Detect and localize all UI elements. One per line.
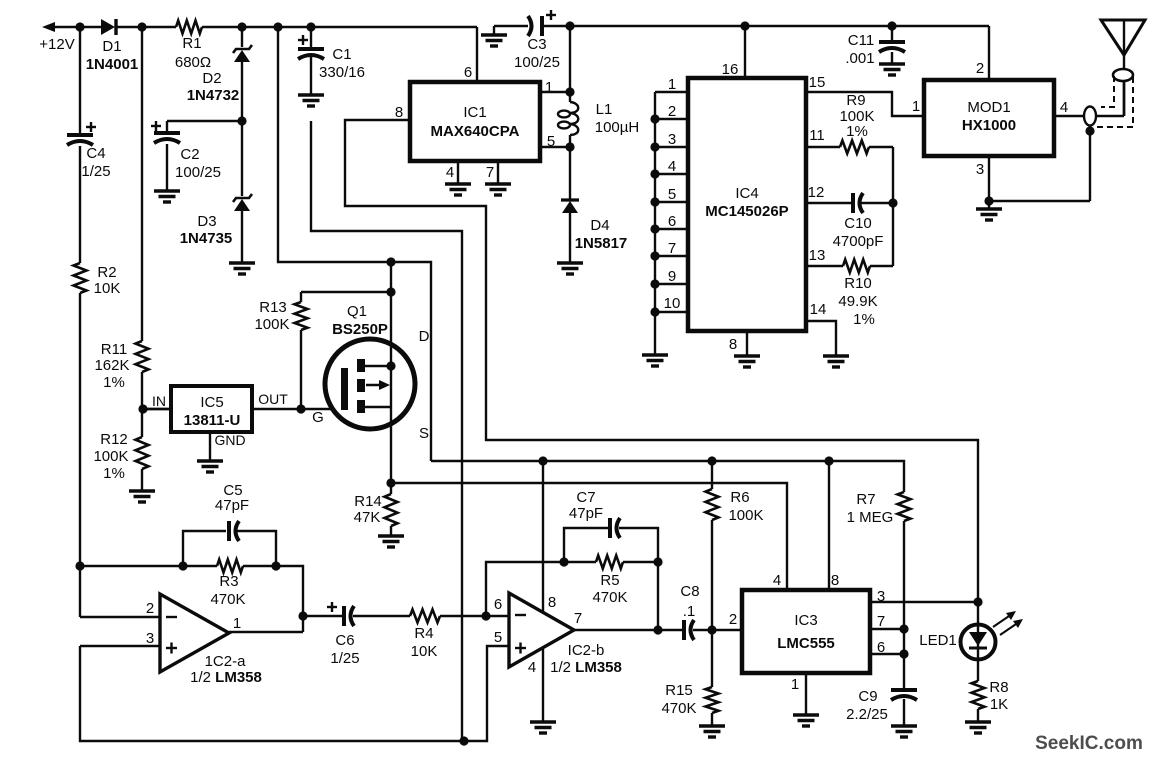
wire IC3 pin6 [870, 653, 904, 655]
C4 plus [86, 122, 96, 132]
junction [559, 557, 568, 566]
wire MOD1 pin4 [1054, 115, 1084, 117]
wire drain stub [365, 365, 391, 367]
junction [899, 649, 908, 658]
wire pin13 to R10 [806, 265, 843, 267]
wire R13 top row [301, 291, 391, 293]
LED1 [961, 624, 996, 660]
diode D4 [561, 200, 579, 213]
svg-text:C11: C11 [848, 32, 874, 49]
wire IC4 pin stub [655, 118, 688, 120]
svg-text:C10: C10 [844, 215, 872, 232]
svg-text:1%: 1% [846, 123, 868, 140]
svg-text:.1: .1 [683, 603, 696, 620]
wire IC4 pin stub [655, 91, 688, 93]
wire feedback to output [276, 566, 303, 632]
wire node A to R3 left [80, 565, 183, 567]
wire R2 to IC2-a pin2 [79, 293, 81, 617]
svg-text:3: 3 [668, 131, 676, 148]
svg-text:R8: R8 [989, 679, 1008, 696]
wire C2 stem [166, 121, 168, 133]
wire R8 to ground [977, 709, 979, 722]
svg-text:12: 12 [808, 184, 825, 201]
node +12V input arrow [42, 22, 55, 32]
wire IC3 pin8 riser [828, 461, 830, 590]
svg-text:1/2 LM358: 1/2 LM358 [190, 669, 262, 686]
wire C7 left loop [564, 528, 608, 562]
wire antenna lead lower [1123, 81, 1126, 116]
wire IC1 pin4 ground stem [457, 161, 459, 184]
wire supply rail to R7 [431, 461, 904, 492]
wire [241, 120, 243, 122]
svg-text:1: 1 [233, 615, 241, 632]
transmitter module MOD1 box [924, 80, 1054, 156]
wire drain-source vertical [390, 262, 392, 483]
resistor R15 [706, 687, 719, 713]
C2 plus [151, 121, 161, 131]
svg-text:D3: D3 [197, 213, 216, 230]
svg-text:8: 8 [395, 104, 403, 121]
resistor R8 [972, 681, 985, 709]
wire R6 bottom lead [711, 520, 713, 630]
junction IC4 bus [650, 142, 659, 151]
ground IC5 [197, 461, 223, 472]
wire C5 left loop [183, 531, 226, 566]
svg-text:1: 1 [791, 676, 799, 693]
svg-text:2.2/25: 2.2/25 [846, 706, 888, 723]
wire pin6 to feedback [486, 562, 564, 616]
svg-text:470K: 470K [210, 591, 245, 608]
svg-text:C1: C1 [332, 46, 351, 63]
svg-text:R2: R2 [97, 264, 116, 281]
wire IC1 pin5 [540, 146, 570, 148]
ground R12 [129, 491, 155, 502]
svg-text:6: 6 [464, 64, 472, 81]
svg-text:LMC555: LMC555 [777, 635, 835, 652]
svg-text:R11: R11 [101, 341, 127, 358]
svg-text:IC5: IC5 [200, 394, 223, 411]
wire top supply rail right [544, 25, 989, 27]
C1 plus [298, 35, 308, 45]
svg-text:MAX640CPA: MAX640CPA [431, 123, 520, 140]
junction [386, 287, 395, 296]
svg-text:4: 4 [446, 164, 454, 181]
junction [707, 625, 716, 634]
resistor R2 [74, 263, 87, 293]
svg-text:1C2-a: 1C2-a [205, 653, 247, 670]
coax pickup loop [1084, 107, 1096, 126]
junction [386, 478, 395, 487]
junction IC4 bus [650, 114, 659, 123]
svg-text:4: 4 [1060, 99, 1068, 116]
svg-text:1N4735: 1N4735 [180, 230, 233, 247]
antenna base cylinder [1113, 69, 1133, 81]
wire R10 to bus [870, 265, 893, 267]
C3 plus [546, 10, 556, 20]
ground IC4 pin8 [734, 356, 760, 367]
svg-text:10K: 10K [94, 280, 121, 297]
svg-text:100K: 100K [728, 507, 763, 524]
resistor R11 [136, 341, 149, 372]
wire C4 to R2 [79, 146, 81, 263]
svg-text:7: 7 [574, 610, 582, 627]
wire R7 to C9 node [903, 521, 905, 688]
svg-text:7: 7 [668, 240, 676, 257]
wire IC4 input bus [654, 92, 656, 355]
svg-text:8: 8 [729, 336, 737, 353]
wire C11 to ground [891, 52, 893, 64]
svg-text:100/25: 100/25 [514, 54, 560, 71]
wire output to C6 [303, 615, 343, 617]
capacitor C8 [684, 620, 694, 640]
svg-text:C3: C3 [527, 36, 546, 53]
resistor R1 [176, 21, 202, 34]
wire node to D3 [241, 121, 243, 196]
svg-text:G: G [312, 409, 324, 426]
wire IC1 pin7 ground stem [497, 161, 499, 184]
wire R4 to IC2-b pin6 [440, 615, 509, 617]
svg-text:IC4: IC4 [735, 185, 758, 202]
resistor R13 [295, 302, 308, 330]
junction [75, 22, 84, 31]
svg-text:1: 1 [668, 76, 676, 93]
svg-text:D4: D4 [590, 217, 609, 234]
wire R11 to IN node [141, 372, 143, 409]
wire IN to IC5 [143, 408, 171, 410]
wire IC4 pin stub [655, 255, 688, 257]
resistor R4 [410, 610, 440, 623]
ground IC4 pin14 [823, 356, 849, 367]
svg-text:1 MEG: 1 MEG [847, 509, 894, 526]
junction [75, 561, 84, 570]
junction [707, 456, 716, 465]
wire pin12 to C10 [806, 202, 852, 204]
svg-text:.001: .001 [845, 50, 874, 67]
resistor R3 [217, 560, 243, 573]
wire C11 stem [891, 26, 893, 42]
wire IC4 pin stub [655, 228, 688, 230]
capacitor C11 [879, 42, 905, 52]
resistor R10 [843, 260, 870, 273]
wire R14 stem bottom [390, 526, 392, 536]
ground D3 [229, 263, 255, 274]
svg-text:R7: R7 [856, 491, 875, 508]
junction [386, 361, 395, 370]
antenna [1101, 20, 1145, 55]
svg-text:4: 4 [528, 659, 536, 676]
svg-text:6: 6 [877, 639, 885, 656]
wire antenna lead [1123, 20, 1125, 116]
svg-text:LED1: LED1 [919, 632, 957, 649]
junction [824, 456, 833, 465]
junction [973, 597, 982, 606]
svg-text:R3: R3 [219, 573, 238, 590]
wire IC4 pin stub [655, 201, 688, 203]
wire D4 to ground [569, 212, 571, 263]
wire R13 stem bottom [300, 330, 302, 409]
svg-text:4: 4 [668, 158, 676, 175]
wire IC5 OUT [171, 408, 252, 410]
wire R3 left lead [183, 565, 217, 567]
svg-text:R14: R14 [354, 493, 382, 510]
wire C3 left [494, 25, 528, 27]
svg-text:R12: R12 [100, 431, 128, 448]
svg-text:16: 16 [722, 61, 739, 78]
svg-text:OUT: OUT [258, 391, 288, 407]
wire R5 left lead [564, 561, 596, 563]
ground MOD1 pin3 [976, 209, 1002, 220]
wire IC4 pin16 riser [744, 26, 746, 78]
wire C9 to ground [903, 699, 905, 726]
svg-text:C9: C9 [858, 688, 877, 705]
svg-text:1: 1 [912, 98, 920, 115]
diode D1 [101, 19, 116, 35]
junction [296, 404, 305, 413]
wire rail to D2 [241, 27, 243, 47]
svg-text:162K: 162K [94, 357, 129, 374]
svg-text:4: 4 [773, 572, 781, 589]
wire D2 to node [241, 60, 243, 121]
wire C1 to ground [310, 57, 312, 95]
wire C2 to ground [166, 144, 168, 191]
junction [481, 611, 490, 620]
svg-text:5: 5 [547, 133, 555, 150]
junction [237, 116, 246, 125]
svg-text:470K: 470K [592, 589, 627, 606]
svg-text:2: 2 [729, 611, 737, 628]
op-amp IC2-b [509, 593, 574, 667]
svg-text:D1: D1 [102, 38, 121, 55]
wire C7 right loop [619, 528, 658, 562]
coax dashed shield [1096, 76, 1133, 127]
svg-text:R13: R13 [259, 299, 287, 316]
svg-text:47K: 47K [354, 509, 381, 526]
wire R15 bottom lead [711, 713, 713, 726]
ground C1 [298, 95, 324, 106]
junction [888, 198, 897, 207]
svg-text:100/25: 100/25 [175, 164, 221, 181]
svg-text:R5: R5 [600, 572, 619, 589]
wire IC4 pin stub [655, 173, 688, 175]
svg-text:470K: 470K [661, 700, 696, 717]
capacitor C3 [528, 16, 542, 36]
svg-text:1/25: 1/25 [81, 163, 110, 180]
encoder IC4 box [688, 78, 806, 331]
svg-text:9: 9 [668, 268, 676, 285]
junction IC4 bus [650, 197, 659, 206]
wire IC2-b pin4 stem [542, 649, 544, 722]
wire [166, 120, 168, 122]
wire IC4 pin8 stem [746, 331, 748, 356]
ground IC3 pin1 [793, 715, 819, 726]
junction [538, 456, 547, 465]
svg-text:+12V: +12V [39, 36, 74, 53]
capacitor C4 [67, 135, 93, 145]
svg-text:4700pF: 4700pF [833, 233, 884, 250]
ground IC1 pin4 [445, 184, 471, 195]
junction [138, 404, 147, 413]
svg-text:49.9K: 49.9K [838, 293, 877, 310]
wire +12V node to C4 [79, 27, 81, 135]
svg-text:13811-U: 13811-U [184, 412, 241, 429]
svg-text:100K: 100K [254, 316, 289, 333]
wire D1 cathode to R11 [141, 27, 143, 341]
wire MOD1 pin3 stem [988, 156, 990, 209]
wire IC2-a output [229, 631, 303, 633]
svg-text:C7: C7 [576, 489, 595, 506]
capacitor C10 [853, 193, 863, 213]
ground IC4 bus [642, 355, 668, 366]
junction [653, 557, 662, 566]
svg-text:C6: C6 [335, 632, 354, 649]
svg-text:1%: 1% [103, 465, 125, 482]
wire C3 ground stem [493, 26, 495, 35]
junction IC4 bus [650, 279, 659, 288]
svg-text:R4: R4 [414, 625, 433, 642]
svg-text:MOD1: MOD1 [967, 99, 1010, 116]
resistor R12 [136, 437, 149, 469]
svg-text:13: 13 [809, 247, 826, 264]
svg-text:IC3: IC3 [794, 612, 817, 629]
op-amp IC2-a [160, 594, 229, 672]
wire IC5 OUT to gate [143, 408, 341, 410]
svg-text:IC1: IC1 [463, 104, 486, 121]
junction [459, 736, 468, 745]
svg-text:D2: D2 [202, 70, 221, 87]
svg-text:HX1000: HX1000 [962, 117, 1016, 134]
svg-text:11: 11 [809, 127, 825, 144]
wire C8 to IC3 pin2 [693, 629, 742, 631]
junction IC4 bus [650, 224, 659, 233]
wire IC1 pin8 to IC3 pin3 net [345, 120, 978, 602]
wire C6 to R4 [353, 615, 410, 617]
svg-text:1N5817: 1N5817 [575, 235, 628, 252]
wire R12 to ground [141, 469, 143, 491]
LED1 light arrows [993, 614, 1019, 635]
wire IC3 pin1 stem [805, 673, 807, 715]
svg-text:R6: R6 [730, 489, 749, 506]
svg-text:1N4732: 1N4732 [187, 87, 240, 104]
svg-text:8: 8 [831, 572, 839, 589]
svg-text:C8: C8 [680, 583, 699, 600]
timer IC3 box [742, 590, 870, 673]
junction [178, 561, 187, 570]
svg-text:3: 3 [146, 630, 154, 647]
svg-text:R15: R15 [665, 682, 693, 699]
inductor L1 [558, 102, 578, 135]
wire IC5 GND stem [209, 432, 211, 461]
wire IC3 pin7 [870, 628, 904, 630]
svg-text:S: S [419, 425, 429, 442]
wire pin3 to coax shield [989, 200, 1090, 202]
wire R9 C10 R10 bus [892, 147, 894, 266]
svg-text:IN: IN [152, 393, 166, 409]
svg-text:3: 3 [877, 588, 885, 605]
wire IC4 pin stub [655, 311, 688, 313]
ground R15 [699, 726, 725, 737]
wire source stub [365, 406, 391, 408]
svg-text:47pF: 47pF [215, 497, 249, 514]
junction [237, 22, 246, 31]
wire IC2-b output to C8 [574, 629, 684, 631]
ground C11 [879, 64, 905, 75]
svg-text:1K: 1K [990, 696, 1008, 713]
wire IC1 pin1 [540, 91, 570, 93]
svg-text:330/16: 330/16 [319, 64, 365, 81]
svg-text:5: 5 [668, 186, 676, 203]
wire L1 to D4 [569, 135, 571, 199]
wire R9 to bus [869, 146, 893, 148]
svg-text:100K: 100K [93, 448, 128, 465]
wire R3 right lead [243, 565, 276, 567]
wire IC4 pin14 to ground [806, 321, 836, 356]
junction [306, 22, 315, 31]
junction [386, 257, 395, 266]
ground C3 [481, 35, 507, 46]
svg-text:47pF: 47pF [569, 505, 603, 522]
wire supply to drain net [278, 27, 431, 461]
wire D1 to R1 [117, 26, 176, 28]
svg-text:100µH: 100µH [595, 119, 640, 136]
wire IC4 pin stub [655, 146, 688, 148]
svg-text:1N4001: 1N4001 [86, 56, 139, 73]
wire rail to L1 [569, 26, 571, 102]
svg-text:7: 7 [486, 164, 494, 181]
svg-text:10K: 10K [411, 643, 438, 660]
wire source rail to IC3 pin4 [391, 483, 787, 590]
ground R14 [378, 536, 404, 547]
wire IC2-b pin3 left [80, 645, 160, 647]
wire R5 right lead [623, 561, 658, 563]
svg-text:2: 2 [668, 103, 676, 120]
wire R14 stem top [390, 483, 392, 494]
svg-text:D: D [419, 328, 430, 345]
resistor R14 [385, 494, 398, 526]
wire D3 to ground [241, 209, 243, 263]
svg-text:3: 3 [976, 161, 984, 178]
svg-text:1/25: 1/25 [330, 650, 359, 667]
wire zener node to bottom rail [311, 121, 462, 741]
svg-text:C4: C4 [86, 145, 105, 162]
junction [984, 196, 993, 205]
wire R1 to IC1 pin6 corner [202, 26, 477, 28]
svg-text:8: 8 [548, 594, 556, 611]
ground C2 [154, 191, 180, 202]
zener diode D3 [233, 194, 252, 211]
wire IN node to R12 [141, 409, 143, 437]
svg-text:10: 10 [664, 295, 681, 312]
wire C5 right loop [237, 531, 276, 566]
ground IC2-b pin4 [530, 722, 556, 733]
svg-text:Q1: Q1 [347, 303, 367, 320]
wire rail to C1 [310, 27, 312, 48]
svg-text:BS250P: BS250P [332, 321, 388, 338]
svg-text:1/2 LM358: 1/2 LM358 [550, 659, 622, 676]
svg-text:IC2-b: IC2-b [568, 642, 605, 659]
op-amp regulator IC1 box [410, 82, 540, 161]
wire pin4 to antenna [1096, 115, 1124, 117]
regulator IC5 box [171, 386, 252, 432]
zener diode D2 [233, 45, 252, 62]
svg-text:15: 15 [809, 74, 826, 91]
svg-text:GND: GND [214, 432, 245, 448]
svg-text:SeekIC.com: SeekIC.com [1035, 733, 1143, 754]
svg-text:R1: R1 [182, 35, 201, 52]
wire to IC2-a pin2 [80, 616, 160, 618]
junction [740, 21, 749, 30]
wire R6 top lead [711, 461, 713, 489]
svg-text:7: 7 [877, 613, 885, 630]
